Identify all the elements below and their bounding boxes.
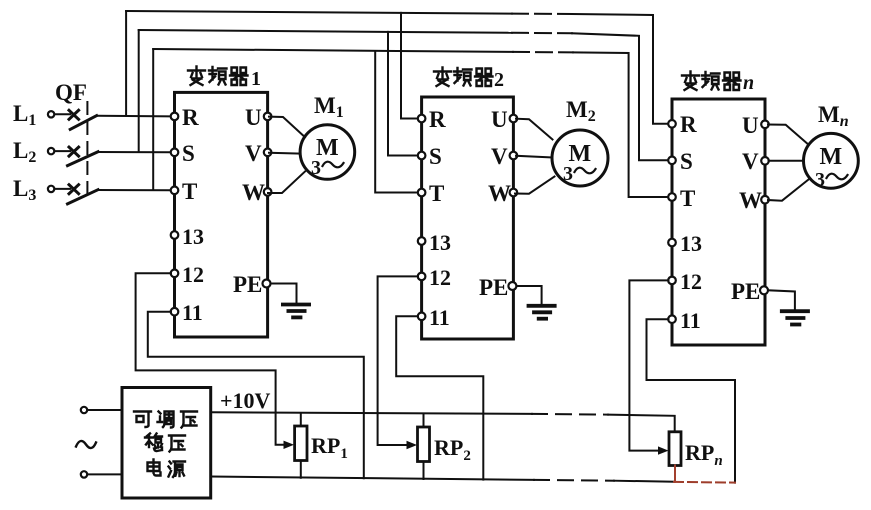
node V terminal invn xyxy=(761,157,769,165)
power supply box xyxy=(122,388,211,499)
wire W to motor M1 xyxy=(268,172,305,194)
svg-text:V: V xyxy=(742,149,759,174)
node 13 terminal inv1 xyxy=(171,231,179,239)
wire bus3 solid right + drop to inverter n T xyxy=(573,52,669,197)
label title 变频器n xyxy=(682,72,754,95)
node U terminal inv1 xyxy=(264,113,272,121)
wire U to motor M1 xyxy=(269,117,305,138)
svg-text:PE: PE xyxy=(233,272,262,297)
label 可调压 line1 xyxy=(134,412,197,428)
ground inv1 xyxy=(281,305,311,318)
ground inv2 xyxy=(527,306,557,319)
svg-text:PE: PE xyxy=(479,275,508,300)
wire PE inv2 to ground xyxy=(517,286,542,304)
wire L3 to contact xyxy=(55,188,71,190)
wire bus2 solid right + drop to inverter n S xyxy=(572,33,669,160)
wire +10V rail dashed xyxy=(532,413,608,416)
ground invn xyxy=(780,311,810,324)
svg-text:QF: QF xyxy=(55,80,87,105)
wire bottom rail dashed xyxy=(534,479,614,482)
breaker QF linkage dashed xyxy=(86,102,88,196)
svg-text:RPn: RPn xyxy=(685,440,723,469)
svg-text:S: S xyxy=(680,149,693,174)
wire bus2 horizontal solid left xyxy=(139,30,512,33)
svg-text:R: R xyxy=(680,112,697,137)
wire inv2 pin12 to RP2 wiper xyxy=(378,276,418,445)
RP2 wiper arrow xyxy=(407,441,418,449)
node AC terminal bottom xyxy=(81,471,87,477)
svg-text:12: 12 xyxy=(429,265,451,290)
wire W to motor M2 xyxy=(515,177,555,194)
svg-text:13: 13 xyxy=(680,231,702,256)
wire RP1 bottom stem xyxy=(300,461,302,478)
label title 变频器1 xyxy=(188,67,261,91)
svg-text:3: 3 xyxy=(815,169,825,191)
node R terminal invn xyxy=(668,120,676,128)
wire L1 to contact xyxy=(55,113,71,115)
svg-text:W: W xyxy=(488,181,511,206)
node 12 terminal inv1 xyxy=(171,270,179,278)
wire bottom rail red dashed to invn 11 drop xyxy=(674,481,735,484)
svg-text:11: 11 xyxy=(182,300,203,325)
svg-text:L2: L2 xyxy=(13,138,36,166)
wire W to motor Mn xyxy=(768,180,809,201)
resistor RP2 body xyxy=(418,427,430,462)
wire AC bottom to box xyxy=(88,473,123,475)
svg-text:R: R xyxy=(429,107,446,132)
svg-text:13: 13 xyxy=(182,224,204,249)
breaker QF contact cross L1 xyxy=(69,110,79,119)
svg-text:RP2: RP2 xyxy=(434,435,471,464)
node U terminal inv2 xyxy=(510,115,518,123)
svg-text:M1: M1 xyxy=(314,93,344,121)
wire L2 blade to S xyxy=(98,151,172,153)
svg-text:R: R xyxy=(182,105,199,130)
wire bus L3 tap vertical xyxy=(152,49,154,190)
svg-text:11: 11 xyxy=(680,308,701,333)
wire inv1 pin11 to bottom rail xyxy=(148,312,364,479)
svg-text:T: T xyxy=(182,179,197,204)
breaker QF contact cross L2 xyxy=(69,147,79,156)
svg-text:RP1: RP1 xyxy=(311,433,348,462)
label 稳压 line2 xyxy=(145,434,185,452)
wire L1 blade to R xyxy=(97,115,172,118)
wire bus3 drop to inverter 2 T xyxy=(375,51,418,192)
svg-text:U: U xyxy=(742,113,759,138)
svg-text:L1: L1 xyxy=(13,101,36,129)
wire AC top to box xyxy=(88,409,123,411)
node R terminal inv2 xyxy=(418,115,426,123)
wire +10V rail solid xyxy=(211,412,532,414)
RP1 wiper arrow xyxy=(284,441,295,449)
svg-text:n: n xyxy=(743,72,754,94)
wire V to motor Mn xyxy=(769,160,804,162)
svg-text:W: W xyxy=(242,180,265,205)
svg-text:U: U xyxy=(245,105,262,130)
svg-text:11: 11 xyxy=(429,305,450,330)
node W terminal invn xyxy=(761,196,769,204)
wire PE invn to ground xyxy=(768,290,795,309)
wire RPn bottom stem red xyxy=(674,466,676,482)
node L3 terminal xyxy=(48,186,54,192)
wire bus3 dashed middle xyxy=(513,51,573,54)
node S terminal inv1 xyxy=(171,149,179,157)
node 11 terminal inv1 xyxy=(171,308,179,316)
breaker QF blade L3 xyxy=(68,190,99,204)
svg-text:12: 12 xyxy=(680,269,702,294)
inverter U1 box xyxy=(175,92,268,337)
node 12 terminal invn xyxy=(668,277,676,285)
svg-text:PE: PE xyxy=(731,279,760,304)
inverter U2 box xyxy=(422,97,514,339)
wire bus1 dashed middle xyxy=(512,13,572,15)
wire bus1 solid right + drop to inverter n R xyxy=(572,14,669,124)
wire inv1 pin12 to RP1 wiper xyxy=(136,273,287,445)
wire PE inv1 to ground xyxy=(271,284,297,303)
svg-text:M: M xyxy=(820,144,843,170)
node L1 terminal xyxy=(48,111,54,117)
node 11 terminal invn xyxy=(668,315,676,323)
wire U to motor M2 xyxy=(516,119,553,140)
wire RP2 top stem xyxy=(423,414,425,427)
resistor RPn body xyxy=(669,432,681,466)
svg-text:1: 1 xyxy=(251,68,261,90)
svg-text:M2: M2 xyxy=(566,97,596,125)
node 12 terminal inv2 xyxy=(418,273,426,281)
wire invn pin12 to RPn wiper xyxy=(629,280,668,450)
wire bus1 horizontal solid left xyxy=(126,11,512,14)
wire +10V rail right into RPn xyxy=(608,415,675,432)
svg-text:V: V xyxy=(245,141,262,166)
svg-text:2: 2 xyxy=(494,69,504,91)
wire U to motor Mn xyxy=(768,125,808,144)
breaker QF contact cross L3 xyxy=(69,185,79,194)
svg-text:3: 3 xyxy=(563,163,573,185)
svg-text:S: S xyxy=(429,144,442,169)
node U terminal invn xyxy=(761,121,769,129)
node PE terminal invn xyxy=(760,286,768,294)
svg-text:U: U xyxy=(491,107,508,132)
wire RP2 bottom stem xyxy=(423,462,425,480)
RPn wiper arrow xyxy=(658,446,669,454)
wire inv2 pin11 to bottom rail xyxy=(396,316,483,479)
inverter Un box xyxy=(672,99,765,345)
label 电源 line3 xyxy=(148,460,186,478)
label AC tilde xyxy=(76,441,96,448)
wire L2 to contact xyxy=(55,150,71,152)
node W terminal inv2 xyxy=(510,189,518,197)
label title 变频器2 xyxy=(434,68,504,92)
wire bus1 drop to inverter 2 R xyxy=(401,13,419,119)
node PE terminal inv1 xyxy=(263,280,271,288)
node R terminal inv1 xyxy=(171,113,179,121)
svg-text:Mn: Mn xyxy=(818,102,849,130)
node T terminal inv2 xyxy=(418,189,426,197)
svg-text:S: S xyxy=(182,141,195,166)
node T terminal inv1 xyxy=(171,187,179,195)
wire bus L2 tap vertical xyxy=(138,30,140,152)
svg-text:T: T xyxy=(429,181,444,206)
svg-text:T: T xyxy=(680,186,695,211)
resistor RP1 body xyxy=(295,426,307,461)
svg-text:L3: L3 xyxy=(13,176,36,204)
node T terminal invn xyxy=(668,193,676,201)
node S terminal inv2 xyxy=(418,152,426,160)
node V terminal inv2 xyxy=(510,152,518,160)
motor Mn circle xyxy=(804,133,859,188)
node V terminal inv1 xyxy=(264,149,272,157)
motor M2 circle xyxy=(552,130,608,186)
node 13 terminal invn xyxy=(668,239,676,247)
wire bottom rail solid xyxy=(211,477,534,480)
wire RP1 top stem xyxy=(300,413,302,426)
wire bottom rail solid right xyxy=(614,481,674,482)
wire invn pin11 right drop xyxy=(647,319,736,482)
svg-text:12: 12 xyxy=(182,262,204,287)
svg-text:3: 3 xyxy=(311,157,321,179)
wire V to motor M1 xyxy=(269,152,301,155)
wire bus L1 tap vertical xyxy=(125,11,127,116)
node W terminal inv1 xyxy=(264,188,272,196)
breaker QF blade L2 xyxy=(68,152,99,166)
node 13 terminal inv2 xyxy=(418,237,426,245)
svg-text:W: W xyxy=(739,188,762,213)
wire V to motor M2 xyxy=(516,156,552,158)
node 11 terminal inv2 xyxy=(418,313,426,321)
node AC terminal top xyxy=(81,407,87,413)
svg-text:V: V xyxy=(491,144,508,169)
svg-text:13: 13 xyxy=(429,230,451,255)
node PE terminal inv2 xyxy=(508,282,516,290)
svg-text:+10V: +10V xyxy=(220,388,271,413)
wire L3 blade to T xyxy=(98,189,172,191)
motor M1 circle xyxy=(300,125,355,180)
node L2 terminal xyxy=(48,148,54,154)
wire bus3 horizontal solid left xyxy=(153,49,513,52)
breaker QF blade L1 xyxy=(70,116,96,130)
wire bus2 dashed middle xyxy=(512,32,572,35)
node S terminal invn xyxy=(668,157,676,165)
wire bus2 drop to inverter 2 S xyxy=(388,32,419,156)
